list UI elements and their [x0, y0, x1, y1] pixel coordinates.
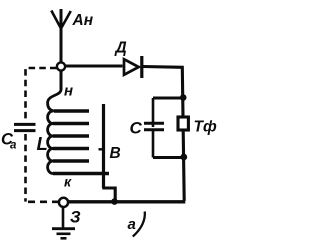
svg-text:L: L: [37, 133, 48, 154]
wire (top rail of C/Tf network): [153, 97, 183, 100]
capacitor C: [144, 98, 164, 158]
junction (slider to ground rail): [111, 198, 118, 205]
svg-text:Д: Д: [114, 40, 127, 57]
inductor L: [48, 71, 109, 174]
slider B: [99, 104, 116, 201]
wire (diode to right corner): [143, 67, 184, 201]
svg-text:С: С: [130, 119, 143, 138]
junction dot: [180, 94, 187, 101]
svg-text:З: З: [70, 209, 81, 227]
junction dot: [180, 154, 187, 161]
wire (bottom rail of network): [153, 156, 183, 159]
svg-text:Тф: Тф: [194, 119, 217, 136]
svg-text:В: В: [110, 145, 121, 162]
wire (bottom ground rail): [68, 200, 185, 203]
svg-text:а: а: [10, 140, 17, 152]
node A (antenna junction): [57, 62, 65, 70]
wire (node to diode): [66, 64, 123, 67]
headphones Тф: [178, 117, 188, 130]
diode Д: [124, 56, 142, 78]
ground З: [52, 208, 75, 239]
svg-text:н: н: [64, 83, 73, 100]
svg-text:к: к: [64, 174, 72, 190]
node (ground junction): [59, 198, 68, 207]
capacitor Ca (dashed antenna coupling): [14, 68, 58, 202]
svg-text:Ан: Ан: [72, 12, 94, 29]
svg-text:а: а: [128, 216, 136, 233]
antenna Ан: [51, 9, 71, 62]
